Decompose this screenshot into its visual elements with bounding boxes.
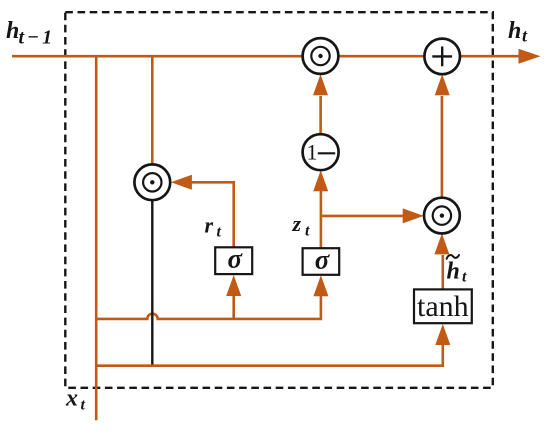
node: top odot ((1-z)*h_{t-1}) [303, 38, 339, 74]
label: h-tilde_t [447, 255, 468, 286]
svg-text:h: h [447, 259, 460, 285]
arrowhead: into 1- circle bottom [313, 170, 328, 191]
arrowhead: into left odot right side [171, 175, 192, 190]
svg-text:z: z [292, 211, 302, 236]
wire: 1- output up into top odot [319, 96, 322, 134]
gate box: sigma (z gate) [303, 245, 340, 275]
label: r_t [205, 213, 222, 241]
arrowhead: into plus circle bottom [435, 74, 450, 95]
label: h_{t-1} [6, 18, 55, 49]
wire: r_t path from sigma_r up and left into left odot [190, 182, 234, 248]
node: plus circle [424, 39, 460, 75]
svg-text:x: x [65, 386, 78, 412]
svg-text:σ: σ [228, 244, 244, 274]
arrowhead: h_t output [519, 49, 541, 64]
wire: middle bus y=318.5 with hop over black line [96, 296, 321, 319]
gate box: sigma (r gate) [215, 244, 252, 275]
label: x_t [65, 386, 86, 414]
label: h_t [508, 18, 528, 46]
arrowhead: into right odot left side [403, 208, 424, 223]
svg-text:h: h [508, 18, 521, 44]
wire: h_{t-1} main horizontal line [12, 55, 521, 58]
wire: tanh output up into right odot [441, 255, 444, 290]
arrowhead: into sigma_r bottom [226, 275, 241, 296]
arrowhead: into top odot bottom [313, 74, 328, 95]
wire: z_t vertical from sigma_z up to 1- circle [320, 191, 323, 248]
gate box: tanh [414, 289, 472, 323]
wire: vertical drop to left odot [151, 56, 154, 166]
svg-text:r: r [205, 213, 214, 238]
wire: vertical x_t line at x=96 [95, 56, 98, 420]
arrowhead: into right odot bottom [434, 233, 449, 254]
svg-text:σ: σ [315, 245, 331, 275]
svg-text:t: t [81, 397, 86, 414]
cell boundary (dashed box) [65, 12, 493, 388]
wire: black output of left odot down to lower bus [151, 199, 153, 367]
wire: branch up into sigma_r [232, 296, 235, 319]
svg-text:t: t [217, 224, 222, 241]
svg-text:t−1: t−1 [19, 27, 56, 49]
label: z_t [292, 211, 311, 240]
svg-text:h: h [6, 18, 19, 44]
arrowhead: into sigma_z bottom [313, 275, 328, 296]
svg-text:tanh: tanh [417, 290, 469, 323]
wire: z_t branch right into right odot [321, 215, 403, 218]
svg-text:t: t [462, 269, 467, 286]
arrowhead: into tanh bottom [435, 324, 450, 345]
svg-text:t: t [305, 223, 310, 240]
svg-text:1: 1 [307, 140, 318, 165]
node: 1- circle [303, 134, 339, 170]
wire: right odot output up into plus circle [441, 96, 444, 198]
node: right odot (z*htilde) [424, 198, 460, 234]
node: left odot (r_t * h_{t-1}) [134, 164, 170, 200]
wire: lower bus y=365.7 up into tanh [96, 345, 443, 366]
